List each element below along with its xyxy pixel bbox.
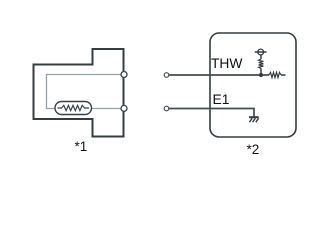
harness terminal circle THW (164, 73, 169, 78)
resistor (series, horizontal zigzag on THW) (269, 72, 281, 77)
ground hatch 2 (253, 118, 256, 122)
svg-text:*1: *1 (75, 139, 88, 154)
ground (chassis) bar (249, 116, 259, 118)
node junction dot on THW (259, 73, 263, 77)
resistor (pull-up, vertical zigzag) (259, 59, 264, 69)
harness terminal circle E1 (164, 106, 169, 111)
wire tail after series resistor (281, 74, 286, 76)
power supply symbol (circle with bar) (258, 49, 264, 55)
thermistor body (oval) (55, 102, 92, 115)
wire stem resistor to supply circle (260, 54, 262, 59)
svg-text:THW: THW (211, 56, 242, 71)
wire bar through supply circle (255, 51, 267, 53)
wire (gray, oval to lower terminal) (92, 108, 122, 110)
ground hatch 1 (249, 118, 252, 122)
terminal pin circle (connector lower) (121, 105, 127, 111)
thermistor resistor element zigzag (58, 105, 90, 110)
connector housing *1 outline (34, 49, 124, 137)
wire stem from junction up to resistor (260, 69, 262, 76)
wire (gray loop inside connector, top run) (47, 75, 122, 109)
wire E1 line to ground (169, 109, 254, 117)
wire THW line (169, 74, 269, 76)
svg-text:E1: E1 (213, 92, 230, 107)
ground hatch 3 (256, 118, 259, 122)
terminal pin circle (connector upper) (121, 72, 127, 78)
ECU box *2 (rounded rectangle) (210, 33, 296, 137)
svg-text:*2: *2 (247, 142, 260, 157)
